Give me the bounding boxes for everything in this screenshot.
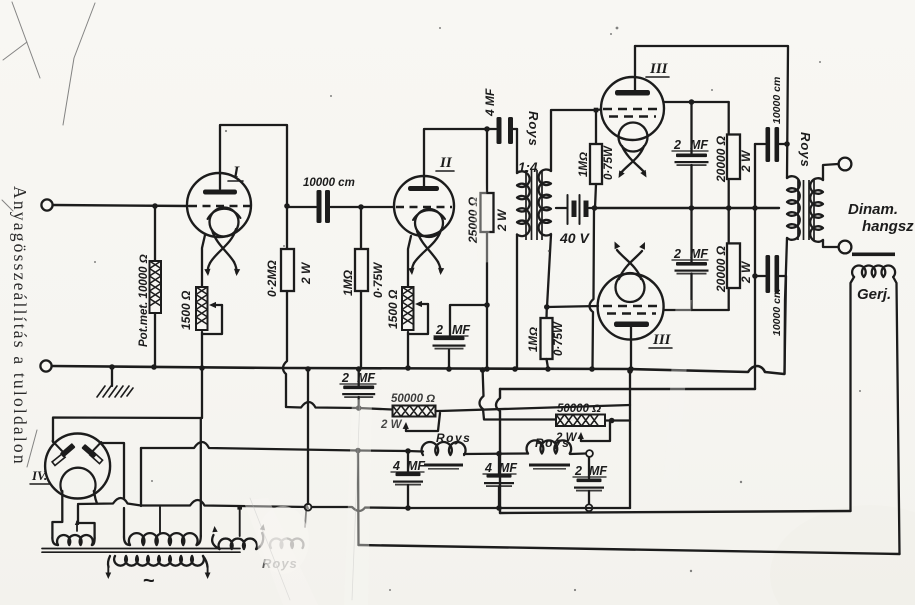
resistor 1500 no2 bbox=[402, 287, 414, 330]
tube II envelope bbox=[394, 176, 454, 236]
scan specks bbox=[94, 27, 861, 592]
wire 2MF lower bottom bbox=[690, 274, 692, 311]
svg-text:MF: MF bbox=[407, 459, 425, 473]
wire Bplus riser bbox=[140, 448, 142, 506]
wire 1500 no1 bottom bbox=[201, 332, 203, 368]
capacitor 2MF no1 bbox=[343, 386, 374, 390]
input terminal bottom bbox=[40, 360, 51, 371]
primary arrows bbox=[107, 567, 109, 574]
svg-text:2 W: 2 W bbox=[299, 261, 313, 285]
streak edge lines bbox=[250, 398, 360, 600]
tap 50000 no1 bbox=[406, 413, 440, 431]
choke bar no2 bbox=[529, 464, 570, 467]
resistor 1M upper bbox=[590, 144, 602, 184]
crease marks bbox=[2, 2, 95, 467]
wire 2MF upper bottom bbox=[690, 165, 692, 208]
primary winding bbox=[108, 556, 110, 567]
svg-text:MF: MF bbox=[690, 247, 708, 261]
svg-text:1MΩ: 1MΩ bbox=[341, 269, 355, 296]
junction pot rail bbox=[151, 364, 157, 370]
wire secondary top out bbox=[823, 164, 838, 180]
svg-text:MF: MF bbox=[499, 461, 517, 475]
tube IV envelope bbox=[45, 434, 110, 499]
svg-text:Dinam.: Dinam. bbox=[848, 201, 898, 218]
svg-text:Anyagösszeállítás a tuloldalon: Anyagösszeállítás a tuloldalon bbox=[10, 186, 30, 466]
tube IV anode left bbox=[60, 443, 76, 458]
junction 2MF1 rail bbox=[356, 366, 362, 372]
junction plate node bbox=[484, 126, 490, 132]
wire grid upper III bbox=[596, 108, 601, 111]
capacitor 4MF no1 bbox=[396, 473, 421, 477]
junction 4MF1 bottom bbox=[405, 505, 411, 511]
wire 2MF3 stem bottom bbox=[588, 491, 590, 505]
tube III upper grid dashes bbox=[603, 108, 662, 110]
wire to 2MF tubeII bbox=[450, 305, 487, 337]
junction winding C tap bbox=[237, 505, 242, 510]
wire Bplus chain bbox=[141, 442, 423, 452]
junction 1500 no1 rail bbox=[199, 365, 205, 371]
junction 4MF1 top bbox=[405, 448, 411, 454]
capacitor 2MF upper bbox=[676, 154, 707, 158]
junction 2MF3 top bbox=[586, 450, 593, 457]
wire transformer primary top bbox=[516, 129, 518, 173]
wire 50000a right bbox=[436, 410, 441, 412]
tube I cathode lead bbox=[202, 235, 205, 287]
wire primary riser bbox=[785, 276, 787, 374]
wire rail to psu left bbox=[53, 368, 202, 442]
svg-text:MF: MF bbox=[452, 323, 470, 337]
wire node column bbox=[754, 144, 756, 389]
wire 4MF to transformer bbox=[511, 128, 518, 130]
paper shading bbox=[770, 505, 915, 605]
tube I filament loop bbox=[210, 208, 239, 237]
wire 1M lower bottom bbox=[547, 359, 549, 368]
wire mid rail bbox=[595, 207, 779, 209]
svg-text:4 MF: 4 MF bbox=[483, 88, 497, 117]
junction primary rail bbox=[512, 366, 518, 372]
tube III lower filament loop bbox=[616, 273, 645, 302]
svg-text:IV.: IV. bbox=[31, 468, 47, 483]
wire 10000cm upper right bbox=[780, 143, 788, 145]
svg-text:10000 cm: 10000 cm bbox=[771, 289, 783, 336]
junction 2MF upper rail bbox=[689, 205, 695, 211]
wire node to cap bbox=[287, 206, 316, 208]
wire between chokes bbox=[464, 452, 528, 455]
tube III lower anode bbox=[614, 322, 649, 328]
transformer 1to4 secondary coil bbox=[539, 170, 551, 236]
junction x630 rail bbox=[627, 368, 633, 374]
wire return loop bottom bbox=[500, 511, 851, 513]
winding B tap bbox=[159, 507, 161, 533]
winding C tap bbox=[239, 507, 241, 536]
ground wire bbox=[111, 367, 113, 386]
svg-text:2 W: 2 W bbox=[739, 260, 753, 284]
svg-text:2 W: 2 W bbox=[380, 419, 403, 431]
svg-text:Pot.met. 10000 Ω: Pot.met. 10000 Ω bbox=[138, 254, 150, 347]
junction 25000 rail bbox=[484, 366, 490, 372]
svg-text:2: 2 bbox=[435, 323, 443, 337]
svg-text:2: 2 bbox=[574, 464, 582, 478]
capacitor 2MF tube II bbox=[434, 337, 465, 341]
wire x484 column bbox=[480, 370, 557, 420]
transformer 1to4 primary coil bbox=[517, 171, 530, 236]
wire screen lower III bbox=[664, 309, 729, 311]
winding A bbox=[52, 538, 58, 545]
capacitor 4MF interstage bbox=[497, 117, 502, 144]
scan streak vertical bbox=[243, 164, 692, 605]
tube III lower grid dashes bbox=[603, 305, 659, 307]
svg-text:2: 2 bbox=[341, 371, 349, 385]
wire 2MF3 stem top bbox=[588, 457, 590, 478]
wire 4MF2 stem bottom bbox=[498, 487, 500, 509]
wire 2MF upper stem bbox=[690, 102, 692, 154]
wire 1M top bbox=[360, 207, 362, 249]
choke Roys no2 bbox=[527, 440, 572, 453]
svg-text:40 V: 40 V bbox=[559, 230, 590, 246]
tube IV filament bbox=[61, 468, 96, 491]
svg-text:2 W: 2 W bbox=[495, 208, 509, 232]
resistor 20000 upper bbox=[727, 135, 740, 180]
capacitor 10000cm upper bbox=[766, 127, 771, 162]
winding A tap bbox=[76, 522, 78, 532]
wire winding A right bbox=[78, 505, 95, 538]
svg-text:50000 Ω: 50000 Ω bbox=[557, 403, 601, 415]
wire pot top bbox=[154, 206, 156, 261]
field coil left lead bbox=[851, 277, 855, 511]
junction 4MF2 top bbox=[496, 451, 502, 457]
wire battery node down bbox=[590, 208, 595, 368]
capacitor 10000cm coupling bbox=[317, 190, 322, 223]
junction 50000b right bbox=[609, 418, 615, 424]
wire bottom rail bbox=[52, 366, 784, 374]
wire 1M bottom bbox=[360, 291, 362, 368]
svg-text:III: III bbox=[649, 61, 669, 77]
svg-text:1MΩ: 1MΩ bbox=[528, 327, 540, 352]
tube II filament loop bbox=[415, 209, 443, 237]
wire tap chain bbox=[440, 405, 630, 411]
svg-text:1:4: 1:4 bbox=[518, 160, 538, 175]
svg-text:1MΩ: 1MΩ bbox=[578, 152, 590, 177]
wire anode right to HV bbox=[101, 443, 124, 499]
tube IV anode right lead bbox=[91, 442, 101, 453]
tube III upper filament leads bbox=[620, 146, 645, 174]
tap wire 50000 no2 bbox=[580, 437, 582, 441]
ground bbox=[97, 386, 133, 397]
transformer core bbox=[42, 548, 240, 550]
junction 10000cm upper bbox=[784, 141, 790, 147]
tube II grid dashes bbox=[396, 206, 452, 208]
wire 2MF1 stem top bbox=[358, 369, 360, 386]
svg-text:20000 Ω: 20000 Ω bbox=[714, 135, 728, 183]
junction 1M lower rail bbox=[545, 366, 551, 372]
svg-text:MF: MF bbox=[589, 464, 607, 478]
svg-text:Roys: Roys bbox=[526, 111, 541, 147]
svg-text:1500 Ω: 1500 Ω bbox=[179, 290, 193, 330]
tube I envelope bbox=[187, 173, 251, 237]
tap wire 1500 no1 bbox=[214, 304, 222, 306]
svg-text:2 W: 2 W bbox=[739, 149, 753, 173]
wire 0.2M top bbox=[286, 206, 288, 249]
wire 4MF1 stem bottom bbox=[407, 485, 409, 508]
tube II anode lead bbox=[424, 129, 487, 186]
choke Roys no1 bbox=[422, 442, 466, 455]
wire 10000cm upper left bbox=[755, 143, 765, 145]
resistor 1500 no1 bbox=[196, 287, 208, 330]
tube I anode lead bbox=[220, 125, 287, 206]
tube IV anode left lead bbox=[53, 441, 64, 453]
speaker terminal top bbox=[839, 158, 852, 171]
wire screen upper III bbox=[664, 101, 729, 103]
junction 1M node bbox=[358, 204, 364, 210]
wire battery to node bbox=[589, 207, 595, 209]
junction anode lower rail bbox=[628, 366, 634, 372]
tap wire 1500 no2 bbox=[420, 303, 428, 305]
wire pot bottom bbox=[154, 313, 156, 367]
resistor 25000 bbox=[481, 193, 494, 232]
wire HV left lead lower bbox=[123, 508, 125, 537]
wire x630 column bbox=[629, 371, 631, 508]
wire 1M upper bottom bbox=[595, 184, 596, 208]
svg-text:MF: MF bbox=[357, 371, 375, 385]
wire anode feed bbox=[286, 402, 392, 410]
resistor 1M bbox=[355, 249, 368, 291]
svg-text:III: III bbox=[652, 332, 672, 348]
tube II anode bbox=[408, 186, 439, 191]
wire outer loop bottom bbox=[359, 545, 900, 554]
wire primary bottom bbox=[785, 238, 788, 374]
wire secondary bottom bbox=[547, 235, 551, 308]
field coil right lead bbox=[893, 277, 899, 554]
tap 1500 no1 bbox=[202, 305, 222, 334]
svg-text:4: 4 bbox=[392, 459, 400, 473]
tap wire 50000 no1 bbox=[405, 427, 407, 431]
wire return loop left bbox=[496, 389, 500, 513]
wire return psu bbox=[78, 498, 630, 511]
wire transformer primary bottom bbox=[516, 235, 518, 370]
output transformer core bbox=[798, 180, 814, 240]
wire 0.2M bottom bbox=[283, 291, 287, 407]
winding C bbox=[212, 535, 219, 549]
junction Bplus T bbox=[355, 448, 361, 454]
resistor 20000 lower bbox=[727, 243, 740, 288]
winding C arrows bbox=[212, 526, 217, 532]
svg-text:50000 Ω: 50000 Ω bbox=[391, 393, 435, 405]
junction 20000 upper rail bbox=[726, 205, 732, 211]
svg-text:MF: MF bbox=[690, 138, 708, 152]
svg-text:20000 Ω: 20000 Ω bbox=[714, 245, 728, 293]
svg-text:0·75W: 0·75W bbox=[371, 261, 385, 298]
junction 2MF tubeII rail bbox=[446, 366, 452, 372]
tube I filament leads bbox=[210, 229, 236, 263]
wire 20000 upper bottom bbox=[728, 179, 730, 208]
svg-text:2 W: 2 W bbox=[555, 432, 578, 444]
resistor 0.2M bbox=[281, 249, 294, 291]
tube II filament leads bbox=[414, 230, 441, 263]
svg-text:0·75W: 0·75W bbox=[553, 321, 565, 356]
junction grid upper III bbox=[594, 108, 599, 113]
wire 10000cm lower left bbox=[755, 275, 765, 277]
potentiometer Pot.met 10000 bbox=[150, 261, 162, 313]
junction battery rail bbox=[589, 366, 595, 372]
svg-text:II: II bbox=[439, 155, 453, 171]
svg-text:I: I bbox=[232, 164, 240, 181]
svg-text:Roys: Roys bbox=[798, 132, 813, 168]
junction x484 rail bbox=[480, 367, 486, 373]
winding B right lead bbox=[200, 418, 202, 536]
svg-text:2: 2 bbox=[673, 247, 681, 261]
junction x308 rail bbox=[305, 366, 311, 372]
junction battery node bbox=[592, 205, 598, 211]
tube I grid dashes bbox=[189, 205, 250, 207]
wire top B plus bbox=[635, 46, 788, 178]
svg-text:0·2MΩ: 0·2MΩ bbox=[265, 260, 279, 297]
wire 20000 upper top bbox=[728, 102, 730, 135]
junction return mid bbox=[305, 504, 312, 511]
field coil bar bbox=[852, 253, 895, 257]
wire return loop top bbox=[500, 388, 755, 390]
wire 1M upper top bbox=[595, 110, 597, 144]
capacitor 2MF lower bbox=[676, 262, 707, 266]
tube III upper anode bbox=[615, 90, 650, 96]
battery 40V bbox=[567, 195, 569, 224]
wire 2MF lower stem bbox=[690, 208, 692, 263]
resistor 50000 no1 bbox=[393, 406, 436, 417]
output transformer secondary coil bbox=[810, 178, 823, 242]
wire filament left lead bbox=[52, 491, 62, 538]
wire secondary bottom out bbox=[823, 240, 838, 247]
junction lower grid node bbox=[544, 304, 550, 310]
svg-text:hangsz: hangsz bbox=[862, 218, 914, 235]
wire 50000b right bbox=[606, 419, 631, 421]
choke bar no1 bbox=[424, 464, 463, 467]
junction 2MF upper bbox=[689, 99, 695, 105]
tap 1500 no2 bbox=[408, 304, 428, 334]
field coil Gerj bbox=[852, 265, 895, 277]
speaker terminal bottom bbox=[839, 241, 852, 254]
winding B bbox=[124, 537, 130, 545]
transformer 1to4 core bbox=[526, 170, 542, 240]
junction mid rail right bbox=[752, 205, 758, 211]
wire secondary top bbox=[551, 110, 596, 171]
junction anode-cap node bbox=[284, 203, 290, 209]
wire 25000 bottom bbox=[486, 232, 488, 368]
wire 2MF tubeII bottom bbox=[448, 350, 450, 369]
junction grid-pot bbox=[152, 203, 158, 209]
capacitor 4MF no2 bbox=[487, 474, 512, 478]
tube III lower filament leads bbox=[617, 250, 642, 279]
junction 1500 no2 rail bbox=[405, 365, 411, 371]
wire grid lower III bbox=[547, 306, 598, 307]
resistor 1M lower bbox=[541, 318, 553, 359]
wire cap to tube II bbox=[331, 206, 395, 208]
tube III upper filament loop bbox=[619, 123, 648, 152]
input terminal top bbox=[41, 199, 52, 210]
svg-text:4: 4 bbox=[484, 461, 492, 475]
wire 2MF1 stem bottom bbox=[358, 397, 360, 408]
tube II cathode lead bbox=[408, 236, 411, 287]
tube III upper envelope bbox=[601, 77, 664, 140]
svg-text:Roys: Roys bbox=[436, 431, 471, 445]
junction 4MF2 bottom bbox=[496, 505, 502, 511]
svg-text:1500 Ω: 1500 Ω bbox=[386, 289, 400, 329]
wire 20000 lower bottom bbox=[728, 288, 730, 310]
tube III upper anode lead bbox=[634, 46, 636, 90]
wire input top to tube I bbox=[53, 205, 188, 206]
tube III lower envelope bbox=[598, 274, 664, 340]
svg-text:~: ~ bbox=[143, 570, 155, 592]
wire 4MF1 stem top bbox=[407, 451, 409, 472]
capacitor 10000cm lower bbox=[766, 255, 771, 293]
svg-text:2: 2 bbox=[673, 138, 681, 152]
tube III lower anode lead bbox=[630, 327, 632, 369]
junction 2MF tube II node bbox=[484, 302, 490, 308]
output transformer primary coil bbox=[787, 176, 800, 240]
svg-text:10000 cm: 10000 cm bbox=[303, 177, 355, 189]
resistor 50000 no2 bbox=[556, 415, 605, 427]
winding D ghost bbox=[270, 503, 309, 548]
wire 20000 lower top bbox=[728, 208, 730, 243]
wire 25000 top bbox=[486, 129, 488, 193]
wire 4MF2 stem top bbox=[498, 454, 500, 474]
wire x308 column bbox=[307, 369, 309, 504]
wire choke2 out bbox=[570, 452, 586, 455]
junction 2MF3 bottom bbox=[586, 504, 593, 511]
wire 1M lower top bbox=[545, 307, 548, 318]
wire filament right lead bbox=[94, 491, 97, 504]
wire plate to 4MF bbox=[487, 128, 496, 130]
capacitor 2MF no3 bbox=[577, 479, 602, 483]
svg-text:Gerj.: Gerj. bbox=[857, 286, 891, 303]
junction 50000a left bbox=[356, 405, 362, 411]
tube IV anode right bbox=[81, 444, 97, 459]
junction 10000cm lower bbox=[752, 273, 758, 279]
wire 1500 no2 bottom bbox=[407, 332, 409, 368]
svg-text:0·75W: 0·75W bbox=[603, 145, 615, 180]
svg-text:10000 cm: 10000 cm bbox=[771, 77, 783, 124]
tap 50000 no2 bbox=[581, 421, 610, 441]
wire secondary center tap bbox=[556, 207, 567, 209]
tube I anode bbox=[203, 190, 237, 195]
junction ground bbox=[109, 364, 115, 370]
wire Bplus drop bbox=[357, 451, 360, 546]
wire 10000cm lower right bbox=[780, 275, 786, 277]
